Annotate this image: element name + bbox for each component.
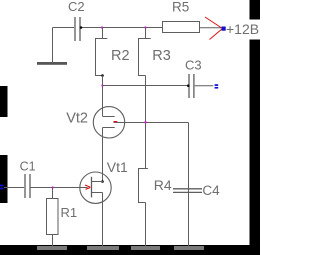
transistor Vt2 — [93, 107, 124, 138]
svg-text:C4: C4 — [202, 183, 220, 198]
wire Vt2 base to divider — [115, 122, 189, 124]
resistor R2 (open-right box) — [96, 39, 108, 76]
svg-text:C1: C1 — [20, 160, 36, 174]
wire ground riser — [52, 28, 54, 63]
wire R2 top lead — [102, 28, 104, 39]
wire R2 bottom to Vt2 collector node — [102, 76, 104, 117]
resistor R3 (open-right box) — [139, 39, 151, 76]
ground bar Vt1 emitter — [87, 246, 119, 250]
input terminal marks — [0, 185, 3, 190]
node junction base divider — [144, 121, 146, 123]
svg-text:Vt1: Vt1 — [107, 159, 128, 175]
wire R5 to +12V terminal — [199, 27, 221, 29]
svg-text:R5: R5 — [172, 0, 189, 14]
wire Vt2 emitter chain down to Vt1 collector — [102, 128, 104, 182]
wire R3 top lead — [145, 28, 147, 39]
svg-text:R4: R4 — [154, 177, 172, 193]
node R2 bottom pin — [101, 74, 104, 77]
resistor R4 (open-right box) — [139, 169, 148, 203]
wire R1 bottom to ground — [52, 235, 54, 247]
wire C4 branch vertical — [188, 123, 190, 247]
resistor R1 — [47, 199, 59, 235]
wire C3 to output terminal — [195, 85, 214, 87]
wire top rail to R5 — [81, 27, 163, 29]
wire R1 top lead — [52, 188, 54, 199]
wire C2 input from ground riser — [53, 28, 75, 63]
wire R4 bottom to ground — [145, 203, 147, 247]
node C2 right pin — [80, 26, 83, 29]
ground bar R1 — [37, 246, 67, 250]
capacitor C4 — [173, 189, 202, 193]
ground (top left chassis bar) — [37, 62, 67, 65]
border notch +12V label background — [250, 20, 261, 40]
emitter arrow Vt2 — [114, 121, 118, 123]
border mask bottom — [0, 245, 260, 255]
wire input to C1 — [4, 187, 24, 189]
svg-text:Vt2: Vt2 — [66, 110, 88, 126]
svg-text:R3: R3 — [152, 48, 171, 64]
svg-text:C3: C3 — [185, 58, 202, 73]
node Vt1 collector corner pin — [101, 180, 104, 183]
+12V terminal square — [222, 27, 226, 31]
svg-text:C2: C2 — [68, 0, 85, 14]
svg-text:+12В: +12В — [226, 21, 259, 37]
border mask left patch A — [0, 86, 8, 117]
node junction C1 / R1 — [52, 186, 54, 188]
wire collector node to C3 — [103, 85, 189, 87]
output terminal marks — [215, 84, 219, 88]
node junction top rail / R3 — [144, 26, 146, 28]
transistor Vt1 — [80, 172, 111, 246]
node C3 left pin — [187, 84, 190, 87]
ground bar C4 — [174, 246, 204, 250]
emitter arrow Vt1 — [85, 185, 90, 189]
border mask left patch B — [0, 155, 8, 203]
node junction base wire — [101, 84, 103, 86]
+12V arrow — [205, 17, 223, 40]
svg-text:R1: R1 — [61, 205, 78, 220]
wire R3 bottom down to base divider node — [145, 76, 147, 169]
resistor R5 — [163, 22, 200, 33]
ground bar R4 — [131, 246, 160, 250]
wire C1 to Vt1 base — [30, 187, 87, 189]
capacitor C2 — [75, 17, 80, 41]
capacitor C1 — [25, 174, 30, 198]
border mask right — [250, 0, 261, 255]
capacitor C3 — [189, 74, 194, 98]
node junction top rail / R2 — [101, 26, 103, 28]
svg-text:R2: R2 — [111, 48, 130, 64]
